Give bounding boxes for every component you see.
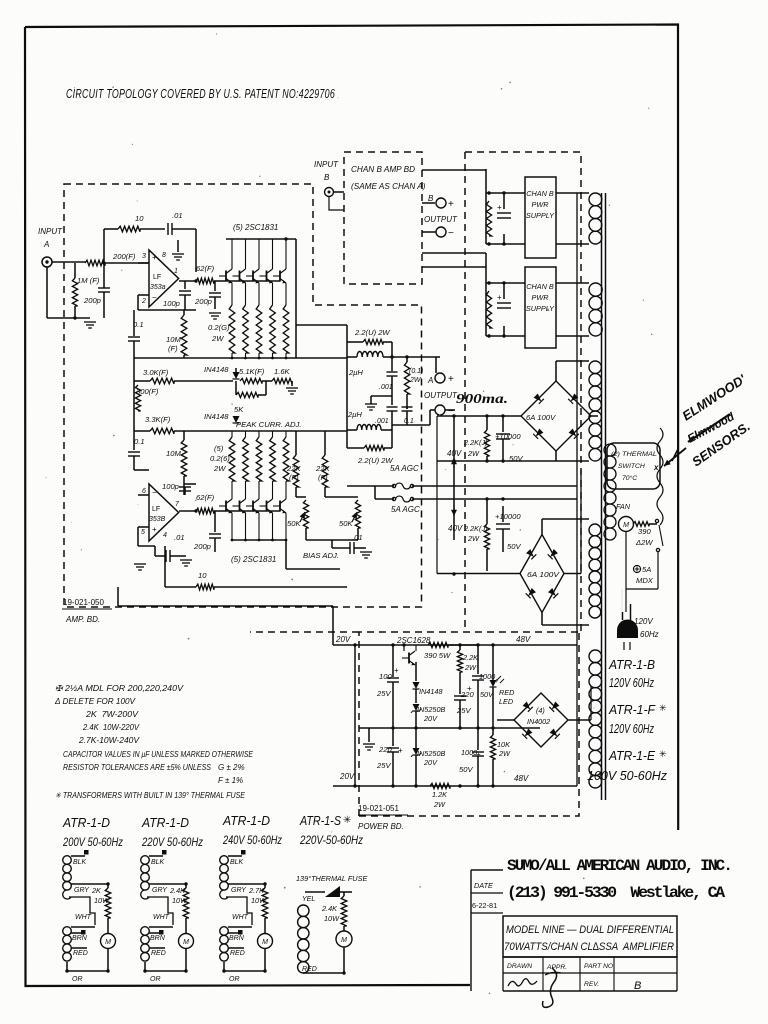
svg-text:SUPPLY: SUPPLY bbox=[526, 211, 555, 220]
svg-text:1: 1 bbox=[174, 268, 178, 275]
svg-text:200p: 200p bbox=[193, 542, 211, 551]
svg-text:5A AGC: 5A AGC bbox=[390, 464, 419, 473]
svg-text:4: 4 bbox=[163, 532, 167, 539]
svg-text:10K: 10K bbox=[497, 740, 511, 749]
svg-text:100p: 100p bbox=[162, 482, 179, 491]
svg-text:PEAK CURR. ADJ.: PEAK CURR. ADJ. bbox=[236, 420, 302, 429]
svg-text:ATR-1-B: ATR-1-B bbox=[608, 657, 655, 672]
svg-text:10W: 10W bbox=[324, 914, 340, 923]
svg-text:+: + bbox=[398, 746, 403, 755]
svg-text:6-22-81: 6-22-81 bbox=[472, 901, 497, 910]
svg-text:(F): (F) bbox=[168, 344, 178, 353]
svg-text:5.1K(F): 5.1K(F) bbox=[239, 367, 265, 376]
svg-text:GRY: GRY bbox=[152, 887, 168, 894]
svg-text:RESISTOR TOLERANCES ARE ±5% UN: RESISTOR TOLERANCES ARE ±5% UNLESS bbox=[63, 763, 212, 772]
svg-text:BIAS ADJ.: BIAS ADJ. bbox=[303, 551, 339, 560]
svg-text:3: 3 bbox=[142, 253, 146, 260]
svg-text:50K: 50K bbox=[287, 519, 301, 528]
svg-text:WHT: WHT bbox=[232, 914, 249, 921]
svg-text:6A 100V: 6A 100V bbox=[527, 572, 561, 579]
svg-text:1M (F): 1M (F) bbox=[77, 276, 100, 285]
svg-text:2W: 2W bbox=[467, 449, 480, 458]
svg-text:−: − bbox=[152, 488, 157, 497]
svg-text:5A AGC: 5A AGC bbox=[391, 505, 420, 514]
svg-text:2.2(U) 2W: 2.2(U) 2W bbox=[357, 456, 393, 465]
svg-text:(2) THERMAL: (2) THERMAL bbox=[611, 451, 657, 458]
svg-text:70°C: 70°C bbox=[622, 474, 637, 482]
svg-text:40V: 40V bbox=[448, 524, 463, 533]
svg-text:BRN: BRN bbox=[150, 935, 166, 942]
svg-text:IN4148: IN4148 bbox=[419, 687, 443, 696]
svg-text:25V: 25V bbox=[376, 761, 391, 770]
svg-text:20V: 20V bbox=[423, 758, 438, 767]
svg-text:6: 6 bbox=[142, 488, 146, 495]
svg-text:19-021-050: 19-021-050 bbox=[63, 598, 104, 607]
svg-text:LF: LF bbox=[152, 506, 160, 513]
svg-text:IN5250B: IN5250B bbox=[417, 705, 446, 714]
svg-text:GRY: GRY bbox=[74, 887, 90, 894]
svg-text:200p: 200p bbox=[83, 296, 101, 305]
svg-text:IN4148: IN4148 bbox=[204, 412, 229, 421]
svg-text:CHAN B: CHAN B bbox=[526, 189, 554, 198]
svg-text:20V: 20V bbox=[339, 772, 355, 781]
svg-text:.01: .01 bbox=[174, 533, 185, 542]
svg-text:LED: LED bbox=[499, 697, 514, 706]
svg-text:2W: 2W bbox=[409, 377, 422, 384]
svg-text:Δ DELETE FOR 100V: Δ DELETE FOR 100V bbox=[54, 697, 136, 706]
svg-text:(213) 991-5330 Westlake, CA: (213) 991-5330 Westlake, CA bbox=[507, 884, 726, 902]
svg-text:OUTPUT: OUTPUT bbox=[424, 391, 458, 400]
svg-text:.001: .001 bbox=[379, 384, 393, 391]
svg-text:25V: 25V bbox=[376, 689, 391, 698]
svg-text:40V: 40V bbox=[447, 449, 462, 458]
svg-text:M: M bbox=[341, 937, 347, 944]
svg-text:2: 2 bbox=[141, 298, 146, 305]
svg-text:M: M bbox=[105, 939, 111, 946]
svg-text:50V: 50V bbox=[459, 765, 473, 774]
svg-text:50V: 50V bbox=[507, 542, 521, 551]
svg-text:DATE: DATE bbox=[474, 881, 493, 890]
svg-text:B: B bbox=[634, 980, 641, 992]
svg-text:2W: 2W bbox=[433, 800, 446, 809]
svg-text:YEL: YEL bbox=[302, 896, 315, 903]
svg-text:BRN: BRN bbox=[72, 935, 88, 942]
svg-text:OUTPUT: OUTPUT bbox=[424, 215, 458, 224]
svg-text:RED: RED bbox=[151, 950, 166, 957]
svg-text:OR: OR bbox=[150, 976, 161, 983]
svg-text:2.7K: 2.7K bbox=[248, 886, 265, 895]
svg-text:200(F): 200(F) bbox=[112, 252, 136, 261]
svg-text:1.2K: 1.2K bbox=[432, 790, 448, 799]
svg-text:(5) 2SC1831: (5) 2SC1831 bbox=[231, 555, 276, 564]
svg-text:2.4K 10W-220V: 2.4K 10W-220V bbox=[82, 723, 140, 732]
svg-text:SWITCH: SWITCH bbox=[618, 463, 645, 470]
svg-text:5K: 5K bbox=[234, 405, 244, 414]
svg-text:10M: 10M bbox=[166, 449, 181, 458]
svg-text:(0.1): (0.1) bbox=[409, 368, 423, 375]
svg-text:(5): (5) bbox=[214, 444, 224, 453]
svg-text:10: 10 bbox=[198, 571, 207, 580]
svg-text:120V: 120V bbox=[634, 617, 653, 626]
svg-text:120V 60Hz: 120V 60Hz bbox=[609, 722, 655, 736]
svg-text:G ± 2%: G ± 2% bbox=[218, 763, 245, 772]
svg-text:+: + bbox=[467, 684, 472, 693]
svg-text:CIRCUIT TOPOLOGY COVERED BY U.: CIRCUIT TOPOLOGY COVERED BY U.S. PATENT … bbox=[66, 86, 335, 101]
svg-text:✳ TRANSFORMERS WITH BUILT IN 1: ✳ TRANSFORMERS WITH BUILT IN 139° THERMA… bbox=[55, 791, 246, 800]
svg-text:IN5250B: IN5250B bbox=[417, 749, 446, 758]
svg-text:IN4148: IN4148 bbox=[204, 365, 229, 374]
svg-text:x: x bbox=[653, 463, 659, 472]
svg-text:10: 10 bbox=[135, 214, 144, 223]
svg-text:2.4K: 2.4K bbox=[169, 886, 186, 895]
svg-text:B: B bbox=[324, 173, 330, 182]
svg-text:+: + bbox=[448, 199, 454, 210]
svg-text:100p: 100p bbox=[163, 299, 180, 308]
svg-text:900ma.: 900ma. bbox=[456, 391, 508, 406]
svg-text:2W: 2W bbox=[467, 534, 480, 543]
svg-text:FAN: FAN bbox=[616, 502, 631, 511]
svg-text:220V-50-60Hz: 220V-50-60Hz bbox=[299, 833, 363, 847]
svg-text:390: 390 bbox=[638, 527, 651, 536]
svg-text:M: M bbox=[183, 939, 189, 946]
svg-text:2.2(U) 2W: 2.2(U) 2W bbox=[354, 328, 390, 337]
svg-text:10M: 10M bbox=[166, 335, 181, 344]
svg-text:220V 50-60Hz: 220V 50-60Hz bbox=[141, 835, 203, 849]
svg-text:2W: 2W bbox=[213, 464, 226, 473]
svg-text:INPUT: INPUT bbox=[38, 227, 63, 236]
svg-text:−: − bbox=[448, 228, 454, 239]
svg-text:1.6K: 1.6K bbox=[274, 367, 291, 376]
svg-text:B: B bbox=[428, 194, 434, 203]
svg-text:PART NO: PART NO bbox=[584, 963, 614, 970]
svg-text:ATR-1-F: ATR-1-F bbox=[608, 702, 656, 717]
svg-text:✳: ✳ bbox=[659, 703, 667, 713]
svg-text:ATR-1-S: ATR-1-S bbox=[299, 813, 341, 828]
svg-text:200V 50-60Hz: 200V 50-60Hz bbox=[62, 835, 123, 849]
svg-text:BLK: BLK bbox=[230, 859, 244, 866]
svg-text:200p: 200p bbox=[194, 297, 212, 306]
svg-text:100V 50-60Hz: 100V 50-60Hz bbox=[587, 769, 668, 783]
svg-text:−: − bbox=[152, 293, 157, 302]
svg-text:WHT: WHT bbox=[153, 914, 170, 921]
svg-text:CHAN B AMP BD: CHAN B AMP BD bbox=[351, 165, 415, 174]
svg-text:120V 60Hz: 120V 60Hz bbox=[609, 676, 655, 690]
svg-text:(4): (4) bbox=[536, 706, 545, 715]
svg-text:10W: 10W bbox=[94, 896, 110, 905]
svg-text:0.1: 0.1 bbox=[404, 418, 414, 425]
svg-text:5A: 5A bbox=[642, 565, 651, 574]
svg-text:RED: RED bbox=[499, 688, 515, 697]
svg-text:OR: OR bbox=[229, 976, 240, 983]
svg-text:RED: RED bbox=[230, 950, 245, 957]
svg-text:0.1: 0.1 bbox=[134, 437, 145, 446]
svg-text:CHAN B: CHAN B bbox=[526, 282, 554, 291]
svg-text:PWR: PWR bbox=[531, 200, 549, 209]
svg-text:(5) 2SC1831: (5) 2SC1831 bbox=[233, 223, 278, 232]
svg-text:LF: LF bbox=[153, 274, 161, 281]
svg-text:IN4002: IN4002 bbox=[527, 717, 550, 726]
svg-text:.01: .01 bbox=[172, 211, 183, 220]
svg-text:3.3K(F): 3.3K(F) bbox=[145, 415, 171, 424]
svg-text:2.4K: 2.4K bbox=[321, 904, 338, 913]
svg-text:✠ 2½A MDL FOR 200,220,240V: ✠ 2½A MDL FOR 200,220,240V bbox=[55, 684, 184, 693]
svg-text:8: 8 bbox=[162, 252, 166, 259]
svg-text:20V: 20V bbox=[335, 635, 351, 644]
svg-text:+: + bbox=[152, 253, 157, 262]
svg-text:48V: 48V bbox=[516, 635, 531, 644]
svg-text:M: M bbox=[262, 939, 268, 946]
svg-text:BLK: BLK bbox=[151, 859, 165, 866]
svg-text:2W: 2W bbox=[498, 749, 511, 758]
svg-text:10W: 10W bbox=[172, 896, 188, 905]
svg-text:SUPPLY: SUPPLY bbox=[526, 304, 555, 313]
svg-text:2.2K(J): 2.2K(J) bbox=[463, 438, 488, 447]
svg-text:M: M bbox=[623, 522, 629, 529]
svg-text:.001: .001 bbox=[375, 418, 389, 425]
svg-text:+: + bbox=[394, 666, 399, 675]
svg-text:REV.: REV. bbox=[584, 981, 599, 988]
svg-text:ATR-1-D: ATR-1-D bbox=[141, 815, 189, 830]
svg-text:70WATTS/CHAN CL∆SSA AMPLIFIER: 70WATTS/CHAN CL∆SSA AMPLIFIER bbox=[504, 941, 674, 953]
svg-text:✳: ✳ bbox=[659, 749, 667, 759]
svg-text:ATR-1-D: ATR-1-D bbox=[222, 813, 270, 828]
svg-text:OR: OR bbox=[72, 976, 83, 983]
svg-text:GRY: GRY bbox=[231, 887, 247, 894]
svg-text:2K: 2K bbox=[91, 886, 102, 895]
svg-text:20V: 20V bbox=[423, 714, 438, 723]
svg-text:48V: 48V bbox=[514, 774, 529, 783]
svg-text:62(F): 62(F) bbox=[196, 264, 215, 273]
svg-text:PWR: PWR bbox=[531, 293, 549, 302]
svg-text:50V: 50V bbox=[480, 690, 494, 699]
svg-text:2W: 2W bbox=[211, 334, 224, 343]
svg-text:2.2K: 2.2K bbox=[462, 653, 479, 662]
svg-text:2μH: 2μH bbox=[348, 368, 363, 377]
svg-text:APPR.: APPR. bbox=[546, 964, 567, 971]
svg-text:✳: ✳ bbox=[343, 815, 351, 826]
svg-text:0.2(6): 0.2(6) bbox=[210, 454, 230, 463]
svg-text:353a: 353a bbox=[150, 284, 166, 291]
svg-text:240V 50-60Hz: 240V 50-60Hz bbox=[222, 833, 282, 847]
svg-text:INPUT: INPUT bbox=[314, 160, 339, 169]
svg-text:MDX: MDX bbox=[636, 576, 654, 585]
svg-text:A: A bbox=[427, 376, 433, 385]
svg-text:MODEL NINE — DUAL DIFFERENTIAL: MODEL NINE — DUAL DIFFERENTIAL bbox=[506, 924, 674, 936]
svg-text:F ± 1%: F ± 1% bbox=[218, 776, 243, 785]
svg-text:RED: RED bbox=[302, 966, 317, 973]
svg-text:WHT: WHT bbox=[75, 914, 92, 921]
svg-text:2W: 2W bbox=[464, 663, 477, 672]
svg-text:+: + bbox=[152, 525, 157, 534]
svg-text:139°THERMAL FUSE: 139°THERMAL FUSE bbox=[296, 874, 367, 883]
svg-text:(SAME AS CHAN A): (SAME AS CHAN A) bbox=[351, 182, 426, 191]
svg-text:+: + bbox=[497, 293, 502, 302]
svg-text:60Hz: 60Hz bbox=[640, 630, 659, 639]
svg-text:BLK: BLK bbox=[73, 859, 87, 866]
svg-text:.01: .01 bbox=[352, 533, 363, 542]
svg-text:62(F): 62(F) bbox=[196, 493, 215, 502]
svg-text:CAPACITOR VALUES IN μF UNLESS: CAPACITOR VALUES IN μF UNLESS MARKED OTH… bbox=[63, 750, 254, 759]
svg-text:3.0K(F): 3.0K(F) bbox=[143, 368, 169, 377]
svg-text:50K: 50K bbox=[339, 519, 353, 528]
svg-text:390 5W: 390 5W bbox=[424, 651, 451, 660]
svg-text:POWER BD.: POWER BD. bbox=[358, 822, 404, 831]
svg-text:BRN: BRN bbox=[229, 935, 245, 942]
svg-text:10W: 10W bbox=[251, 896, 267, 905]
svg-text:5: 5 bbox=[141, 529, 145, 536]
svg-text:A: A bbox=[43, 240, 49, 249]
svg-text:2K 7W-200V: 2K 7W-200V bbox=[85, 710, 139, 719]
svg-text:+10000: +10000 bbox=[495, 512, 521, 521]
svg-text:25V: 25V bbox=[456, 706, 471, 715]
svg-text:+: + bbox=[497, 203, 502, 212]
svg-text:+: + bbox=[448, 374, 454, 385]
svg-text:100: 100 bbox=[379, 672, 392, 681]
svg-text:DRAWN: DRAWN bbox=[507, 963, 532, 970]
svg-text:ATR-1-D: ATR-1-D bbox=[62, 815, 110, 830]
svg-text:353B: 353B bbox=[149, 516, 166, 523]
svg-text:Δ2W: Δ2W bbox=[635, 538, 653, 547]
svg-text:19-021-051: 19-021-051 bbox=[358, 804, 399, 813]
svg-text:ATR-1-E: ATR-1-E bbox=[608, 748, 655, 763]
svg-text:2.7K-10W-240V: 2.7K-10W-240V bbox=[78, 736, 140, 745]
svg-text:AMP. BD.: AMP. BD. bbox=[65, 615, 100, 624]
svg-text:2μH: 2μH bbox=[347, 410, 362, 419]
svg-text:6A 100V: 6A 100V bbox=[526, 413, 556, 422]
svg-text:SUMO/ALL AMERICAN AUDIO, INC.: SUMO/ALL AMERICAN AUDIO, INC. bbox=[507, 857, 731, 875]
svg-text:RED: RED bbox=[73, 950, 88, 957]
svg-text:0.2(G): 0.2(G) bbox=[208, 323, 230, 332]
svg-text:2SC1628: 2SC1628 bbox=[396, 636, 431, 645]
